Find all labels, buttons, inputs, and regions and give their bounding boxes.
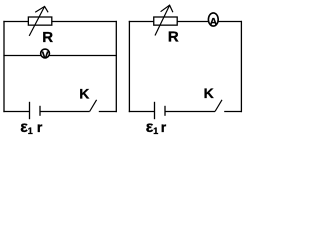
battery short plate (right circuit) xyxy=(164,106,166,116)
wire: right circuit top, corner to resistor R xyxy=(129,21,154,23)
svg-text:K: K xyxy=(204,85,214,101)
ammeter A (ellipse) xyxy=(208,13,218,26)
wire: left circuit right side xyxy=(115,21,117,112)
switch K lever (left circuit, open) xyxy=(90,100,97,112)
resistor R (rheostat body) right circuit xyxy=(154,17,177,25)
resistor R (rheostat body) left circuit xyxy=(28,17,51,25)
svg-text:K: K xyxy=(79,85,89,101)
svg-text:V: V xyxy=(42,49,49,61)
svg-text:A: A xyxy=(210,16,218,28)
wire: right circuit right side xyxy=(240,21,242,112)
rheostat arrow shaft (left R) xyxy=(29,6,44,36)
switch K lever (right circuit, open) xyxy=(215,100,222,112)
battery short plate (left circuit) xyxy=(39,106,41,116)
wire: right circuit bottom, corner to battery xyxy=(129,111,155,113)
voltmeter V (circle) xyxy=(41,49,50,58)
rheostat arrow shaft (right R) xyxy=(155,5,170,35)
wire: left circuit top, resistor R to corner xyxy=(52,21,117,23)
wire: voltmeter branch, right segment xyxy=(50,55,117,57)
wire: left circuit left side xyxy=(3,21,5,112)
wire: right circuit top, resistor R to ammeter A xyxy=(177,21,209,23)
wire: right circuit left side xyxy=(128,21,130,112)
wire: right circuit bottom, switch K to corner xyxy=(224,111,242,113)
rheostat arrowhead (left R) xyxy=(35,6,48,12)
wire: left circuit bottom, switch K to corner xyxy=(99,111,117,113)
svg-text:1: 1 xyxy=(28,126,33,136)
svg-text:r: r xyxy=(37,119,43,135)
svg-text:R: R xyxy=(168,29,179,46)
wire: left circuit bottom, corner to battery xyxy=(3,111,29,113)
wire: left circuit bottom, battery to switch K xyxy=(40,111,90,113)
wire: voltmeter branch, left segment xyxy=(3,55,41,57)
battery long plate (left circuit) xyxy=(29,102,31,119)
svg-text:1: 1 xyxy=(153,126,158,136)
wire: left circuit top, corner to resistor R xyxy=(3,21,28,23)
rheostat arrowhead (right R) xyxy=(161,5,173,12)
svg-text:R: R xyxy=(42,29,53,46)
battery long plate (right circuit) xyxy=(154,102,156,119)
wire: right circuit top, ammeter A to corner xyxy=(218,21,242,23)
svg-text:r: r xyxy=(161,119,167,135)
wire: right circuit bottom, battery to switch K xyxy=(165,111,215,113)
